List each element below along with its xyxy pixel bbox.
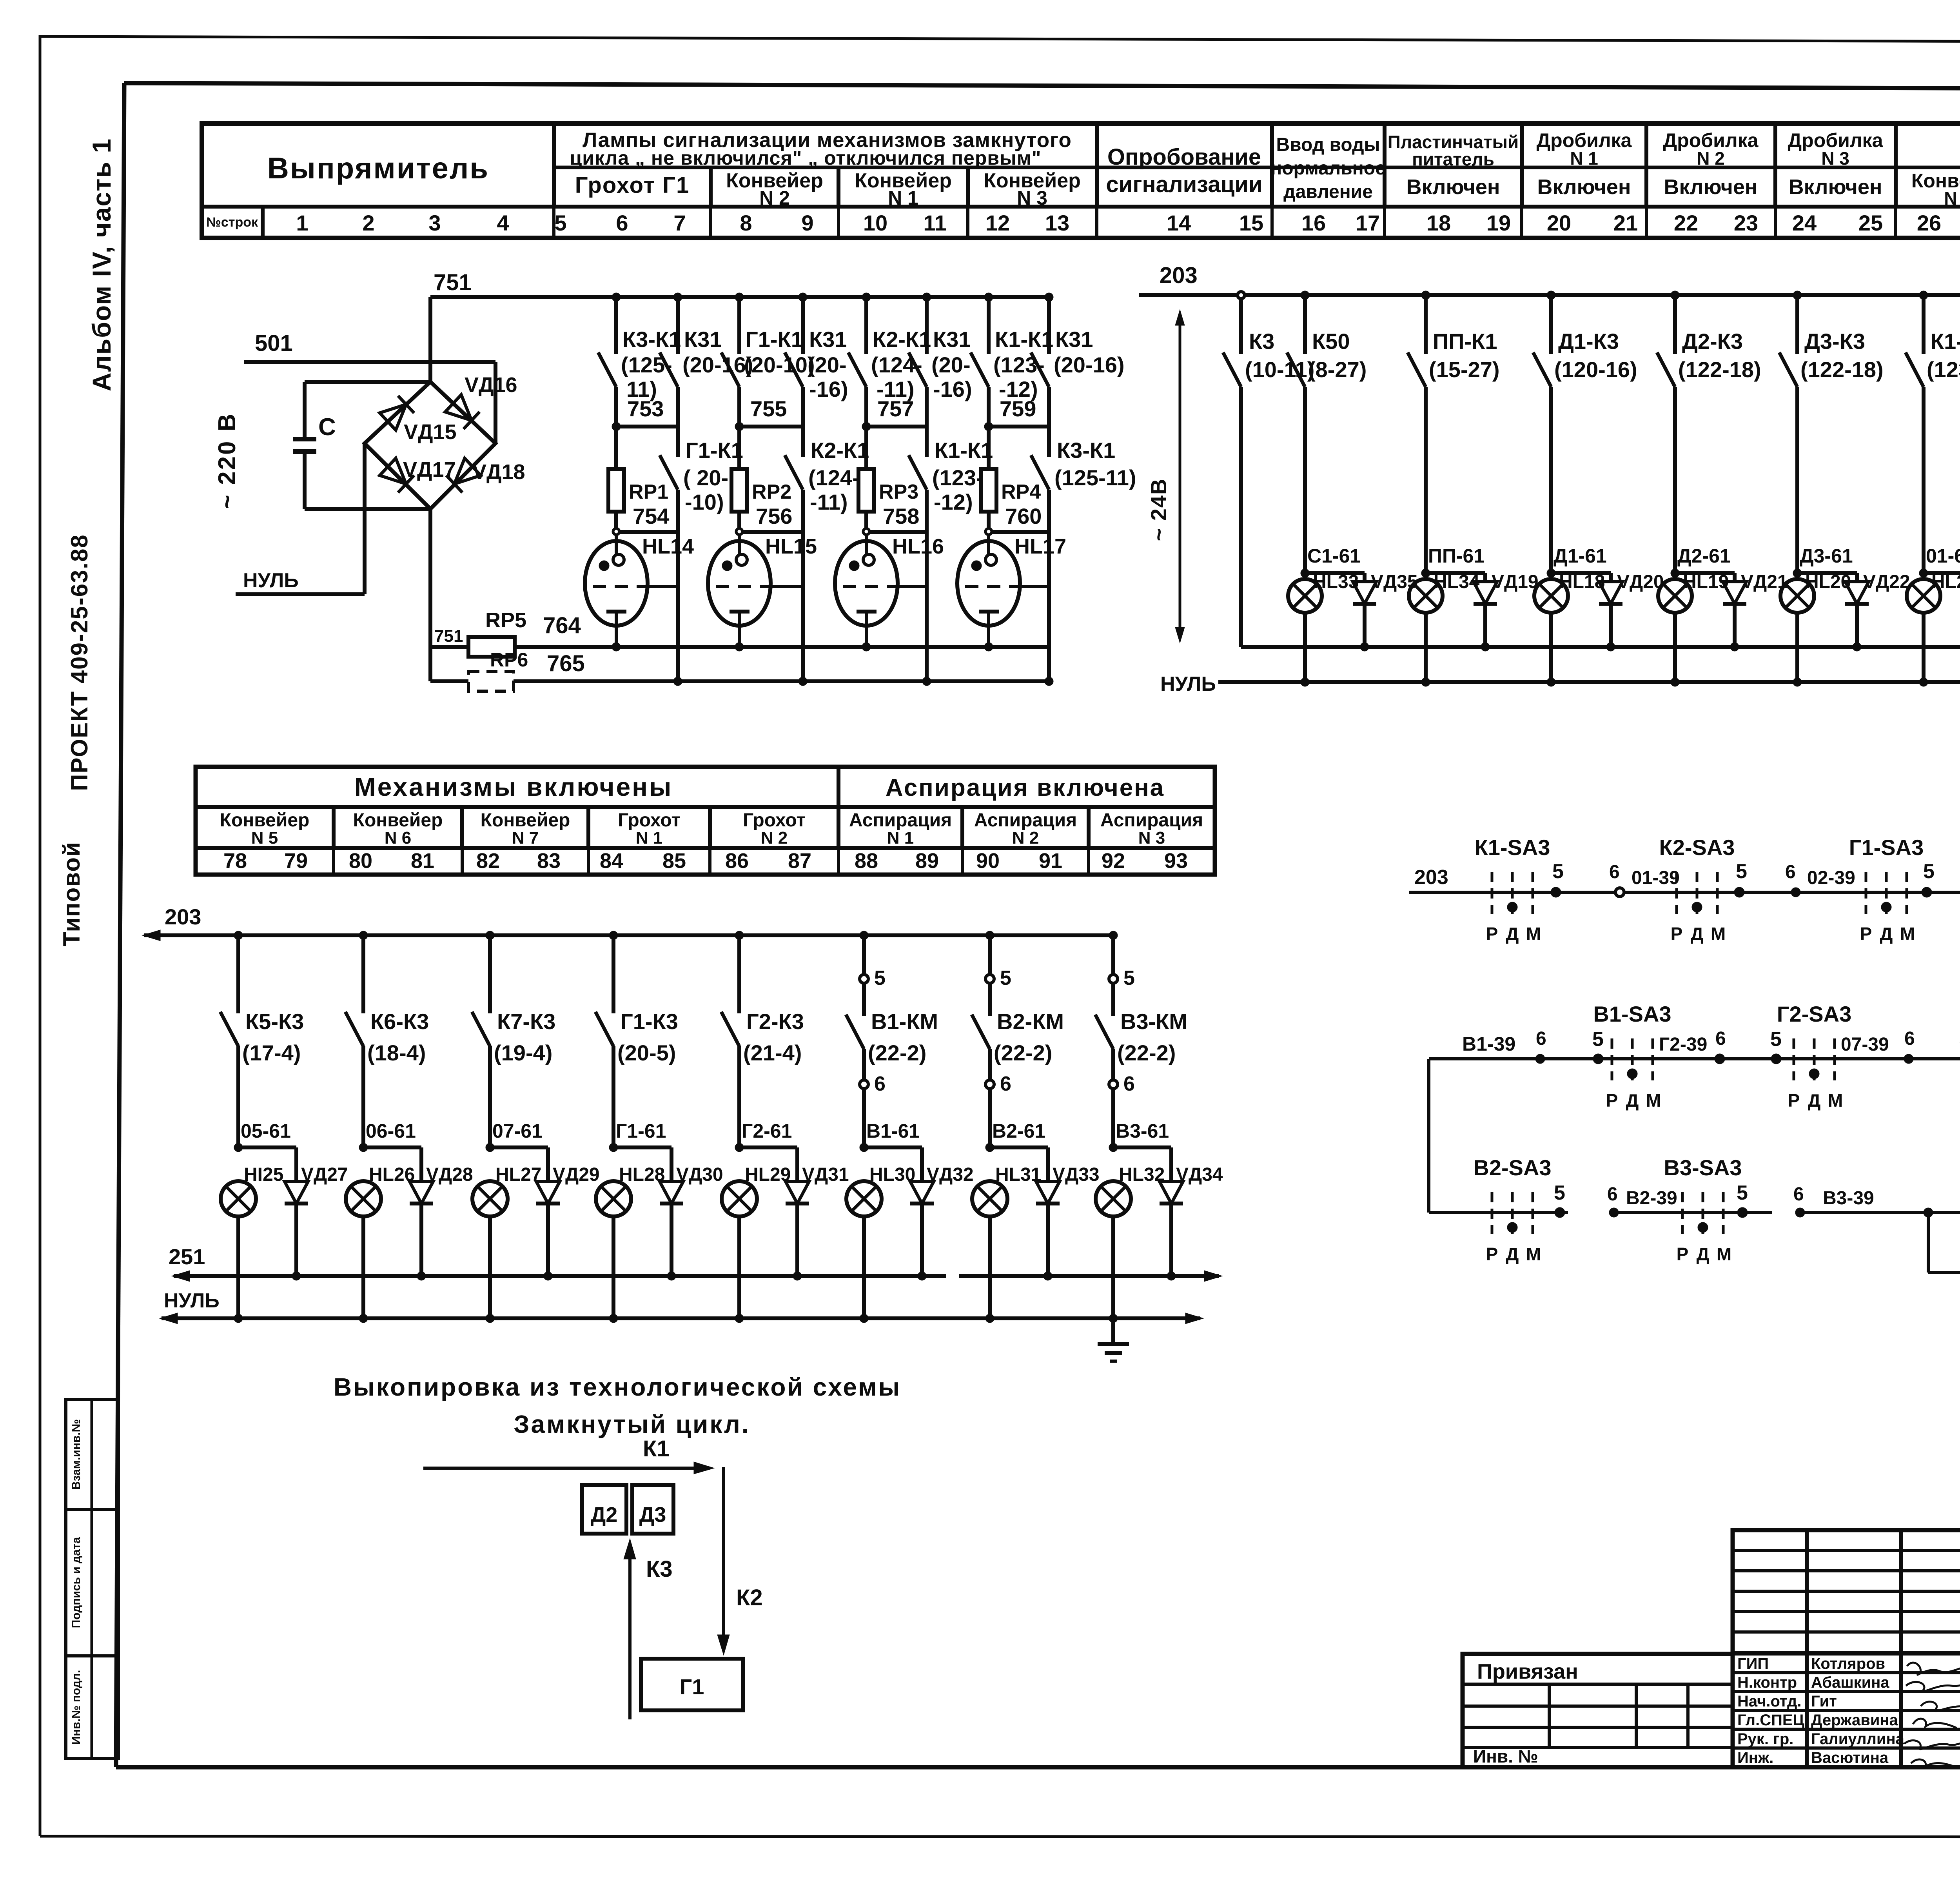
svg-text:07-61: 07-61 xyxy=(492,1120,543,1142)
svg-text:(124-: (124- xyxy=(808,465,860,490)
svg-text:В1-61: В1-61 xyxy=(866,1120,920,1142)
node Г1-61 xyxy=(609,1120,671,1152)
svg-text:19: 19 xyxy=(1486,211,1511,235)
wire SA3 row2 to row3 drop xyxy=(1427,1059,1430,1213)
svg-text:HL16: HL16 xyxy=(892,535,944,558)
svg-text:21: 21 xyxy=(1613,211,1638,235)
svg-text:22: 22 xyxy=(1674,211,1698,235)
svg-text:Д1-К3: Д1-К3 xyxy=(1558,329,1619,354)
header table row numbers xyxy=(296,211,1960,235)
wire lamp HL14 side to bus 765 xyxy=(612,532,682,686)
svg-text:К3-К1: К3-К1 xyxy=(1057,438,1115,463)
switch К1-SA3 xyxy=(1475,835,1550,944)
svg-text:Инв.№ подл.: Инв.№ подл. xyxy=(70,1670,83,1745)
svg-text:Аспирация: Аспирация xyxy=(974,810,1077,831)
svg-text:Д: Д xyxy=(1506,924,1519,944)
node 756 xyxy=(736,504,803,535)
svg-text:(22-2): (22-2) xyxy=(1117,1040,1176,1065)
svg-text:В3-61: В3-61 xyxy=(1116,1120,1169,1142)
wire bus нуль (top right) xyxy=(1160,650,1960,695)
svg-text:(20-16): (20-16) xyxy=(682,352,753,377)
svg-text:VД16: VД16 xyxy=(465,373,517,397)
svg-text:81: 81 xyxy=(411,849,434,873)
table 2 row numbers xyxy=(223,849,1188,873)
svg-text:К6-К3: К6-К3 xyxy=(370,1009,429,1034)
contact К3-К1 xyxy=(1031,438,1136,532)
junction dot on нуль at HL29 xyxy=(735,1314,744,1323)
svg-text:Включен: Включен xyxy=(1788,175,1882,199)
svg-text:1: 1 xyxy=(296,211,308,235)
svg-text:К31: К31 xyxy=(684,327,722,352)
diode VД36 xyxy=(1928,1213,1960,1284)
svg-text:N 5: N 5 xyxy=(251,828,278,848)
svg-text:(20-: (20- xyxy=(808,352,847,377)
svg-text:HL30: HL30 xyxy=(869,1164,915,1185)
diode VД34 xyxy=(1160,1147,1223,1280)
svg-text:давление: давление xyxy=(1283,182,1373,202)
wire НУЛЬ input xyxy=(236,443,365,594)
svg-text:6: 6 xyxy=(616,211,628,235)
svg-text:6: 6 xyxy=(874,1073,886,1095)
svg-text:Аспирация включена: Аспирация включена xyxy=(886,774,1165,801)
table 2 grid xyxy=(196,767,1215,875)
svg-text:В1-39: В1-39 xyxy=(1462,1033,1515,1055)
svg-text:К3: К3 xyxy=(646,1556,673,1582)
svg-text:(20-16): (20-16) xyxy=(1054,352,1125,377)
wire bus 251 (top right) xyxy=(1241,613,1960,652)
diode VД30 xyxy=(660,1147,723,1280)
wire bridge minus down xyxy=(428,509,432,681)
diode VД27 xyxy=(285,1147,348,1280)
svg-text:12: 12 xyxy=(985,211,1010,235)
contact К2-К1 column xyxy=(848,293,931,427)
switch В2-SA3 xyxy=(1473,1155,1551,1264)
lamp HL30 xyxy=(846,1164,915,1318)
svg-text:Д: Д xyxy=(1691,924,1704,944)
node 01-61 xyxy=(1919,545,1960,577)
contact Г1-К1 xyxy=(660,438,743,532)
flow arrow К1 xyxy=(423,1436,714,1474)
contact К50 (8-27) xyxy=(1287,291,1367,573)
neon lamp HL16 xyxy=(835,535,944,647)
wire bus 764 xyxy=(515,613,1049,647)
svg-text:6: 6 xyxy=(1000,1073,1011,1095)
svg-text:Р: Р xyxy=(1671,924,1683,944)
svg-text:-16): -16) xyxy=(933,377,972,401)
node ПП-61 xyxy=(1421,545,1485,577)
switch Г1-SA3 xyxy=(1849,835,1924,944)
junction dot on нуль at HL32 xyxy=(1109,1314,1118,1323)
svg-text:(22-2): (22-2) xyxy=(994,1040,1052,1065)
wire 501 xyxy=(244,330,495,362)
svg-text:RP6: RP6 xyxy=(490,649,528,671)
lamp HL21 xyxy=(1907,572,1960,682)
junction dot on нуль at HL26 xyxy=(359,1314,368,1323)
svg-text:В2-39: В2-39 xyxy=(1626,1188,1677,1209)
node 6 02-39 xyxy=(1785,862,1855,897)
svg-text:6: 6 xyxy=(1785,862,1796,882)
svg-text:501: 501 xyxy=(255,330,293,356)
diode VД32 xyxy=(910,1147,974,1280)
svg-text:N 1: N 1 xyxy=(887,828,914,848)
svg-text:753: 753 xyxy=(627,396,664,421)
svg-text:( 20-: ( 20- xyxy=(683,465,728,490)
svg-text:HL15: HL15 xyxy=(765,535,817,558)
lamp HL31 xyxy=(972,1164,1041,1318)
wire 501 to bridge right corner xyxy=(494,362,497,443)
diode VД22 xyxy=(1845,572,1910,651)
svg-text:Аспирация: Аспирация xyxy=(849,810,952,831)
svg-text:(10-11): (10-11) xyxy=(1245,357,1314,382)
contact К31 column xyxy=(909,293,972,457)
svg-text:К2-SA3: К2-SA3 xyxy=(1659,835,1735,860)
svg-text:ГИП: ГИП xyxy=(1737,1655,1769,1672)
lamp HL32 xyxy=(1096,1164,1165,1318)
junction dot on нуль at HL30 xyxy=(860,1314,868,1323)
svg-text:Д: Д xyxy=(1808,1090,1821,1111)
diode VД31 xyxy=(786,1147,849,1280)
junction dot on нуль at HL21 xyxy=(1919,678,1928,686)
svg-text:N 6: N 6 xyxy=(385,828,411,848)
svg-text:В1-КМ: В1-КМ xyxy=(871,1009,938,1034)
lamp HL20 xyxy=(1780,572,1851,682)
svg-text:нормальное: нормальное xyxy=(1270,158,1386,179)
node 754 xyxy=(613,504,678,535)
svg-text:М: М xyxy=(1526,1244,1541,1264)
contact К6-К3 (18-4) xyxy=(345,931,429,1147)
svg-text:05-61: 05-61 xyxy=(241,1120,291,1142)
node 6 В2-39 xyxy=(1607,1184,1772,1217)
svg-text:Инв. №: Инв. № xyxy=(1473,1746,1538,1766)
svg-text:84: 84 xyxy=(600,849,623,873)
svg-text:VД32: VД32 xyxy=(927,1164,974,1185)
svg-text:Р: Р xyxy=(1788,1090,1800,1111)
svg-text:№строк: №строк xyxy=(206,215,258,230)
svg-text:-16): -16) xyxy=(809,377,848,401)
svg-text:78: 78 xyxy=(223,849,247,873)
node В3-61 xyxy=(1109,1120,1171,1152)
svg-text:Д3: Д3 xyxy=(639,1503,666,1527)
svg-text:26: 26 xyxy=(1917,211,1941,235)
svg-text:760: 760 xyxy=(1005,504,1042,528)
svg-text:Васютина: Васютина xyxy=(1811,1749,1889,1766)
label 07-39 6 xyxy=(1841,1028,1915,1064)
svg-text:(15-27): (15-27) xyxy=(1429,357,1500,382)
svg-text:5: 5 xyxy=(1923,860,1935,883)
svg-text:М: М xyxy=(1717,1244,1731,1264)
diode VД20 xyxy=(1599,572,1664,651)
neon lamp HL15 xyxy=(708,535,817,647)
svg-text:К3: К3 xyxy=(1249,329,1274,354)
svg-text:VД34: VД34 xyxy=(1176,1164,1223,1185)
svg-text:01-39: 01-39 xyxy=(1632,868,1680,888)
svg-text:759: 759 xyxy=(1000,396,1036,421)
flow box Г1 xyxy=(641,1659,743,1710)
svg-text:203: 203 xyxy=(165,904,201,929)
svg-text:Грохот: Грохот xyxy=(618,810,681,831)
junction dot on нуль at HL34 xyxy=(1421,678,1430,686)
svg-text:НУЛЬ: НУЛЬ xyxy=(1160,673,1216,695)
switch В3-SA3 xyxy=(1664,1155,1742,1264)
svg-text:Р: Р xyxy=(1486,924,1498,944)
svg-text:К50: К50 xyxy=(1312,329,1350,354)
svg-text:Гит: Гит xyxy=(1811,1693,1837,1710)
diode bridge VД15-VД18 frame xyxy=(365,382,495,509)
svg-text:НУЛЬ: НУЛЬ xyxy=(243,569,299,592)
svg-text:VД19: VД19 xyxy=(1492,572,1539,592)
svg-text:HL26: HL26 xyxy=(369,1164,415,1185)
svg-text:751: 751 xyxy=(434,626,463,646)
svg-text:Опробование: Опробование xyxy=(1107,144,1261,170)
junction dot on нуль at HL19 xyxy=(1671,678,1679,686)
svg-text:N 3: N 3 xyxy=(1017,187,1047,209)
contact К31 column xyxy=(1031,293,1125,457)
svg-text:N 7: N 7 xyxy=(512,828,539,848)
label В1-39 xyxy=(1462,1028,1546,1064)
junction dot on нуль at HL27 xyxy=(486,1314,494,1323)
contact В1-КМ (22-2) xyxy=(846,931,938,1147)
diode VД18 xyxy=(446,458,525,493)
contact Д2-К3 (122-18) xyxy=(1657,291,1761,573)
node Д1-61 xyxy=(1547,545,1611,577)
node Г2-61 xyxy=(735,1120,797,1152)
svg-text:Д3-К3: Д3-К3 xyxy=(1804,329,1865,354)
node 6 В3-39 xyxy=(1793,1184,1928,1217)
node В1-61 xyxy=(860,1120,922,1152)
svg-text:Р: Р xyxy=(1486,1244,1498,1264)
wire bus 765 xyxy=(514,651,1049,681)
svg-text:HL31: HL31 xyxy=(995,1164,1041,1185)
svg-text:203: 203 xyxy=(1160,263,1198,288)
contact Г1-К1 column xyxy=(721,293,815,427)
svg-text:Рук. гр.: Рук. гр. xyxy=(1737,1730,1793,1748)
svg-text:Конвейер: Конвейер xyxy=(220,810,310,831)
header table grid xyxy=(202,123,1960,238)
svg-text:Г2-61: Г2-61 xyxy=(742,1120,792,1142)
svg-text:В2-SA3: В2-SA3 xyxy=(1473,1155,1551,1180)
node 5 К7-SA3 xyxy=(1959,1028,1960,1064)
svg-text:01-61: 01-61 xyxy=(1926,545,1960,567)
lamp HI25 xyxy=(221,1164,283,1318)
diode VД15 xyxy=(380,396,457,444)
resistor RP6 (dashed) xyxy=(430,649,528,691)
svg-text:5: 5 xyxy=(1554,1182,1565,1204)
svg-text:5: 5 xyxy=(1000,967,1011,989)
svg-text:6: 6 xyxy=(1715,1028,1726,1049)
svg-text:К2-К1: К2-К1 xyxy=(811,438,869,463)
svg-text:В3-SA3: В3-SA3 xyxy=(1664,1155,1742,1180)
svg-text:~ 24В: ~ 24В xyxy=(1146,478,1171,541)
svg-text:М: М xyxy=(1900,924,1915,944)
svg-text:VД18: VД18 xyxy=(472,460,525,484)
svg-text:RP3: RP3 xyxy=(879,481,918,503)
diode VД21 xyxy=(1723,572,1788,651)
svg-text:N 1: N 1 xyxy=(888,187,918,209)
svg-text:Нач.отд.: Нач.отд. xyxy=(1737,1693,1801,1710)
svg-text:N 2: N 2 xyxy=(761,828,788,848)
svg-text:Галиуллина: Галиуллина xyxy=(1811,1730,1905,1748)
svg-text:VД28: VД28 xyxy=(426,1164,473,1185)
svg-text:HL21: HL21 xyxy=(1931,572,1960,592)
svg-text:06-61: 06-61 xyxy=(366,1120,416,1142)
svg-text:C: C xyxy=(318,414,336,441)
node 760 xyxy=(985,504,1049,535)
svg-text:VД20: VД20 xyxy=(1617,572,1664,592)
svg-text:754: 754 xyxy=(633,504,669,528)
svg-text:5: 5 xyxy=(1123,967,1135,989)
svg-text:К5-К3: К5-К3 xyxy=(245,1009,304,1034)
svg-text:Абашкина: Абашкина xyxy=(1811,1674,1889,1691)
svg-text:N 3: N 3 xyxy=(1138,828,1165,848)
svg-text:90: 90 xyxy=(976,849,1000,873)
svg-text:Ввод воды: Ввод воды xyxy=(1276,134,1380,155)
svg-text:Грохот: Грохот xyxy=(743,810,806,831)
svg-text:VД33: VД33 xyxy=(1053,1164,1100,1185)
svg-text:VД22: VД22 xyxy=(1863,572,1910,592)
node 5 В1-SA3 xyxy=(1592,1028,1604,1064)
svg-text:(20-: (20- xyxy=(931,352,971,377)
voltage arrow ~24В xyxy=(1146,310,1185,643)
svg-text:Р: Р xyxy=(1860,924,1872,944)
svg-text:сигнализации: сигнализации xyxy=(1106,172,1262,197)
svg-text:9: 9 xyxy=(801,211,813,235)
contact Г2-К3 (21-4) xyxy=(721,931,804,1147)
svg-text:6: 6 xyxy=(1123,1073,1135,1095)
svg-text:Р: Р xyxy=(1677,1244,1689,1264)
svg-text:Г1-61: Г1-61 xyxy=(616,1120,666,1142)
svg-text:83: 83 xyxy=(537,849,561,873)
diode VД28 xyxy=(410,1147,473,1280)
svg-text:Типовой: Типовой xyxy=(58,841,85,946)
svg-text:Аспирация: Аспирация xyxy=(1100,810,1203,831)
svg-text:86: 86 xyxy=(725,849,749,873)
svg-text:24: 24 xyxy=(1792,211,1817,235)
contact К1-К1 column xyxy=(971,293,1053,427)
svg-text:К1-SA3: К1-SA3 xyxy=(1475,835,1550,860)
svg-text:(20-10): (20-10) xyxy=(744,352,815,377)
svg-text:Конвейер: Конвейер xyxy=(353,810,443,831)
wire junction 755 xyxy=(735,396,803,431)
svg-text:питатель: питатель xyxy=(1412,149,1494,169)
lamp HL35 xyxy=(1924,1169,1960,1231)
svg-text:Г1-SA3: Г1-SA3 xyxy=(1849,835,1924,860)
svg-text:Д: Д xyxy=(1880,924,1893,944)
contact К1-К1 xyxy=(909,438,993,532)
svg-text:Гл.СПЕЦ.: Гл.СПЕЦ. xyxy=(1737,1712,1809,1729)
svg-text:17: 17 xyxy=(1356,211,1380,235)
svg-text:ПП-К1: ПП-К1 xyxy=(1433,329,1497,354)
switch К2-SA3 xyxy=(1659,835,1735,944)
svg-text:6: 6 xyxy=(1904,1028,1915,1049)
svg-text:ПРОЕКТ 409-25-63.88: ПРОЕКТ 409-25-63.88 xyxy=(66,534,93,791)
svg-text:~ 220 В: ~ 220 В xyxy=(214,412,241,509)
contact К5-К3 (17-4) xyxy=(220,931,304,1147)
svg-text:764: 764 xyxy=(543,613,581,638)
node Д3-61 xyxy=(1793,545,1857,577)
svg-text:79: 79 xyxy=(284,849,308,873)
svg-text:765: 765 xyxy=(547,651,585,676)
svg-text:Котляров: Котляров xyxy=(1811,1655,1885,1672)
svg-text:25: 25 xyxy=(1858,211,1883,235)
svg-text:755: 755 xyxy=(750,396,787,421)
svg-text:К7-К3: К7-К3 xyxy=(497,1009,555,1034)
svg-text:6: 6 xyxy=(1607,1184,1618,1205)
svg-text:14: 14 xyxy=(1167,211,1191,235)
svg-text:Конвейер: Конвейер xyxy=(481,810,570,831)
svg-text:HI25: HI25 xyxy=(244,1164,283,1185)
svg-text:В1-SA3: В1-SA3 xyxy=(1593,1002,1671,1026)
resistor RP3 xyxy=(858,427,918,512)
svg-text:HL17: HL17 xyxy=(1014,535,1066,558)
svg-text:HL32: HL32 xyxy=(1119,1164,1165,1185)
svg-text:Н.контр: Н.контр xyxy=(1737,1674,1797,1691)
wire SA3 row 3 xyxy=(1429,1211,1537,1214)
svg-text:85: 85 xyxy=(662,849,686,873)
junction dot on нуль at HL28 xyxy=(609,1314,618,1323)
svg-text:К1-К3: К1-К3 xyxy=(1931,329,1960,354)
svg-text:6: 6 xyxy=(1793,1184,1804,1205)
svg-text:(123-: (123- xyxy=(932,465,984,490)
svg-text:758: 758 xyxy=(883,504,919,528)
wire bus нуль (lower left) xyxy=(160,1289,1203,1324)
svg-text:Д1-61: Д1-61 xyxy=(1553,545,1607,567)
svg-text:Д3-61: Д3-61 xyxy=(1800,545,1853,567)
resistor RP4 xyxy=(981,427,1041,512)
svg-text:VД31: VД31 xyxy=(802,1164,849,1185)
lamp HL28 xyxy=(596,1164,665,1318)
svg-text:5: 5 xyxy=(554,211,566,235)
node 05-61 xyxy=(234,1120,296,1152)
junction dot on нуль at HL20 xyxy=(1793,678,1802,686)
lamp HL19 xyxy=(1658,572,1729,682)
svg-text:В3-39: В3-39 xyxy=(1823,1188,1874,1209)
svg-text:В2-КМ: В2-КМ xyxy=(997,1009,1064,1034)
resistor RP2 xyxy=(731,427,791,512)
svg-text:6: 6 xyxy=(1609,862,1620,882)
title block outer box xyxy=(1733,1530,1960,1767)
svg-text:-12): -12) xyxy=(934,490,973,514)
svg-text:15: 15 xyxy=(1239,211,1263,235)
svg-text:5: 5 xyxy=(1737,1182,1748,1204)
contact Д1-К3 (120-16) xyxy=(1533,291,1637,573)
contact Д3-К3 (122-18) xyxy=(1779,291,1884,573)
svg-text:5: 5 xyxy=(1736,860,1747,883)
svg-text:Д: Д xyxy=(1697,1244,1710,1264)
contact ПП-К1 (15-27) xyxy=(1408,291,1500,573)
svg-text:(122-18): (122-18) xyxy=(1678,357,1761,382)
svg-text:К31: К31 xyxy=(933,327,971,352)
svg-text:К1-К1: К1-К1 xyxy=(935,438,993,463)
margin box Взам.инв.№ xyxy=(66,1400,118,1509)
svg-text:07-39: 07-39 xyxy=(1841,1034,1889,1055)
svg-text:Г1-К3: Г1-К3 xyxy=(621,1009,678,1034)
svg-text:80: 80 xyxy=(349,849,372,873)
node 6 01-39 xyxy=(1609,862,1680,897)
svg-text:N 2: N 2 xyxy=(1012,828,1039,848)
svg-text:К1: К1 xyxy=(643,1436,670,1461)
svg-text:5: 5 xyxy=(874,967,886,989)
svg-text:251: 251 xyxy=(169,1244,205,1269)
contact К2-К1 xyxy=(785,438,869,532)
svg-text:Г1: Г1 xyxy=(680,1674,704,1699)
flow wire down К2 xyxy=(717,1467,763,1655)
switch В1-SA3 xyxy=(1593,1002,1671,1111)
svg-text:13: 13 xyxy=(1045,211,1069,235)
diode VД29 xyxy=(536,1147,600,1280)
svg-text:Державина: Державина xyxy=(1811,1712,1898,1729)
svg-text:RP1: RP1 xyxy=(629,481,668,503)
svg-text:HL28: HL28 xyxy=(619,1164,665,1185)
